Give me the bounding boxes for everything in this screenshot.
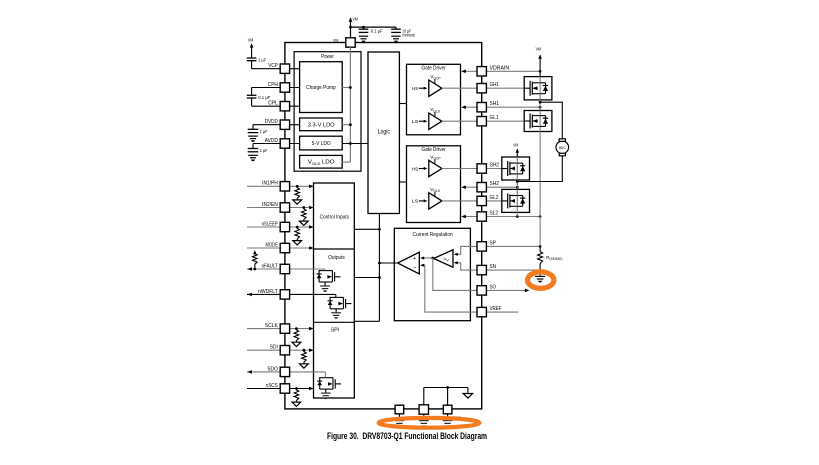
svg-text:HS: HS — [412, 86, 419, 92]
open-drain FET (nWDFLT) — [328, 297, 352, 318]
VM supply arrow (half-bridge 1) — [538, 54, 542, 76]
svg-text:GH2: GH2 — [490, 163, 500, 169]
pull-down resistor on nSLEEP — [293, 226, 302, 245]
svg-text:LS: LS — [412, 199, 419, 205]
node VM/cap junction — [349, 26, 352, 29]
wire SDI — [247, 349, 312, 351]
wire SN to sense resistor — [486, 269, 540, 271]
wire SDO to FET drain — [324, 372, 326, 378]
3.3-V LDO block — [300, 118, 343, 131]
GND pin 3 — [443, 405, 452, 414]
highlight ring (sense ground) — [528, 272, 554, 288]
wire IN2/EN — [247, 207, 312, 209]
pull-down resistor on IN2/EN — [299, 206, 308, 225]
divider outputs / SPI — [314, 321, 355, 323]
wire logic to gate driver 1 — [399, 103, 406, 105]
svg-text:DVDD: DVDD — [265, 119, 278, 125]
svg-text:1 µF: 1 µF — [260, 129, 268, 134]
svg-text:BDC: BDC — [559, 146, 566, 150]
wire GH1 — [442, 87, 524, 89]
wire control inputs to logic — [354, 228, 379, 230]
wire GND riser (pin 3) — [447, 388, 449, 406]
svg-text:3.3-V LDO: 3.3-V LDO — [308, 122, 335, 128]
svg-text:SH2: SH2 — [490, 181, 500, 187]
pin MODE — [266, 242, 290, 252]
pull-up resistor on nFAULT — [253, 250, 258, 270]
svg-text:nSCS: nSCS — [266, 383, 279, 389]
wire outputs to logic — [354, 277, 379, 279]
pull-down resistor on SDI — [300, 349, 309, 368]
pin SCLK — [265, 323, 290, 333]
wire DVDD — [253, 124, 300, 126]
wire GH2 — [442, 168, 502, 170]
svg-text:IN2/EN: IN2/EN — [262, 202, 278, 208]
VM supply arrow (VCP cap) — [250, 43, 254, 58]
wire FET1 source to SP node — [539, 132, 541, 247]
svg-text:Logic: Logic — [378, 129, 390, 135]
wire logic to gate driver 2 — [399, 181, 406, 183]
node SH1 motor tap — [539, 101, 542, 104]
pin VCP — [268, 63, 289, 73]
pin VDRAIN — [477, 65, 509, 76]
op-amp comparator (current regulation) — [398, 252, 420, 274]
wire SO output — [486, 289, 528, 291]
svg-text:Power: Power — [321, 54, 334, 60]
pin GH1 — [477, 82, 499, 93]
wire VM arrow to VM pin — [350, 27, 352, 38]
open-drain FET (SDO) — [317, 378, 341, 399]
svg-text:VM: VM — [248, 38, 253, 44]
pin nFAULT — [262, 263, 290, 273]
svg-text:+: + — [413, 256, 416, 262]
pin CPL — [268, 101, 289, 111]
charge pump block — [300, 62, 343, 113]
svg-text:Current Regulation: Current Regulation — [413, 232, 453, 238]
svg-text:VGLS LDO: VGLS LDO — [308, 160, 335, 166]
wire motor lead A — [540, 102, 562, 139]
GND pin 2 — [419, 405, 428, 414]
wire GL1 — [442, 120, 524, 122]
capacitor C_FLY 0.1 uF (CPH-CPL) — [247, 88, 257, 107]
wire nFAULT to FET drain — [324, 269, 326, 271]
svg-text:VDRAIN: VDRAIN — [490, 65, 510, 71]
pin SL2 — [477, 211, 498, 222]
wire 5-V LDO to logic — [342, 143, 368, 145]
transistor low-side FET 2 — [502, 189, 530, 212]
GND pin 1 — [395, 405, 404, 414]
wire SCLK — [247, 328, 312, 330]
divider control inputs / outputs — [314, 248, 355, 250]
VM supply arrow (top) — [349, 17, 353, 27]
pull-down resistor on SCLK — [292, 327, 301, 346]
pin DVDD — [265, 119, 290, 129]
5-V LDO block — [300, 136, 343, 150]
svg-text:SP: SP — [490, 240, 497, 246]
svg-text:SN: SN — [490, 264, 497, 270]
svg-text:IN1/PH: IN1/PH — [262, 181, 278, 187]
wire FET2 source to SL2 — [516, 212, 518, 216]
svg-text:VM: VM — [536, 47, 541, 53]
svg-text:CPH: CPH — [268, 82, 278, 88]
device outline box — [285, 43, 482, 409]
wire source link HB2 — [516, 180, 518, 189]
wire nWDFLT to FET drain — [335, 294, 337, 297]
Power section box — [294, 52, 361, 172]
VM pin — [346, 38, 355, 47]
pin SDI — [270, 345, 290, 355]
svg-text:nSLEEP: nSLEEP — [262, 221, 279, 227]
transistor high-side FET 2 — [502, 157, 530, 180]
capacitor 10 uF (minimum) (VM bulk) — [391, 27, 401, 42]
svg-text:nWDFLT: nWDFLT — [258, 289, 278, 295]
wire SP to sense resistor — [486, 245, 540, 247]
svg-text:VREF: VREF — [490, 306, 502, 312]
ground (sense resistor) — [535, 275, 545, 277]
pin nWDFLT — [258, 289, 290, 299]
op-amp AV sense amplifier — [434, 250, 454, 267]
highlight ring (GND pins) — [379, 418, 480, 428]
wire logic riser — [378, 214, 380, 322]
svg-text:SDO: SDO — [267, 366, 278, 372]
wire comparator output to logic riser — [379, 262, 397, 264]
svg-text:SPI: SPI — [331, 327, 339, 333]
svg-text:0.1 µF: 0.1 µF — [371, 28, 383, 33]
ground pin 2 — [419, 420, 429, 422]
wire SN to AV- — [455, 263, 477, 270]
pull-down resistor on IN1/PH — [293, 185, 302, 204]
Logic block — [368, 52, 399, 214]
wire VM top rail — [351, 26, 397, 28]
current regulation box — [394, 228, 470, 320]
svg-text:Figure 30. DRV8703-Q1 Functio: Figure 30. DRV8703-Q1 Functional Block D… — [327, 431, 487, 441]
resistor R_SENSE — [538, 246, 543, 276]
svg-text:VM: VM — [353, 16, 358, 22]
pin GL1 — [477, 115, 499, 126]
svg-text:SCLK: SCLK — [265, 323, 279, 329]
ground pin 3 — [443, 420, 453, 422]
wire IN1/PH — [247, 185, 312, 187]
pin SP — [477, 240, 497, 251]
wire GND riser (pin 2) — [423, 388, 425, 406]
capacitor C_AVDD 1 uF — [248, 144, 259, 162]
wire VCP — [252, 68, 300, 70]
svg-text:nFAULT: nFAULT — [262, 263, 279, 269]
pin GL2 — [477, 195, 499, 206]
control inputs / outputs / SPI column box — [314, 183, 355, 398]
pin nSCS — [266, 383, 290, 393]
transistor high-side FET 1 — [524, 77, 552, 100]
capacitor 0.1 uF (VM bypass) — [359, 27, 369, 42]
pin nSLEEP — [262, 221, 290, 231]
pin GH2 — [477, 163, 499, 174]
svg-text:AVDD: AVDD — [265, 138, 278, 144]
pin IN1/PH — [262, 181, 290, 191]
svg-text:Gate Driver: Gate Driver — [421, 147, 446, 153]
VM supply arrow (half-bridge 2) — [516, 148, 520, 157]
wire SP to AV+ — [455, 246, 477, 254]
pin CPH — [268, 82, 290, 92]
svg-text:SO: SO — [490, 284, 497, 290]
svg-text:1 µF: 1 µF — [258, 58, 266, 63]
transistor low-side FET 1 — [524, 111, 552, 132]
svg-text:Outputs: Outputs — [328, 255, 345, 261]
wire source link HB1 — [539, 100, 541, 111]
wire nWDFLT — [247, 293, 336, 295]
wire AV output to SO — [433, 258, 477, 290]
wire 3.3-V LDO to VM — [342, 124, 350, 126]
svg-text:CPL: CPL — [268, 101, 278, 107]
svg-text:GL2: GL2 — [490, 195, 499, 201]
pin SDO — [267, 366, 289, 376]
svg-text:Gate Driver: Gate Driver — [421, 65, 446, 71]
wire AVDD — [253, 143, 300, 145]
svg-text:VM: VM — [333, 38, 338, 44]
ground pin 1 — [395, 420, 405, 422]
wire CPL — [252, 105, 300, 107]
svg-text:GL1: GL1 — [490, 115, 499, 121]
op-amp HS gate driver 1 — [412, 74, 442, 96]
op-amp LS gate driver 2 — [412, 187, 442, 209]
pin SH1 — [477, 101, 499, 112]
wire nSCS — [247, 388, 312, 390]
pin SN — [477, 264, 496, 275]
wire GL2 — [442, 200, 502, 202]
wire SPI to logic — [354, 320, 379, 322]
svg-text:SH1: SH1 — [490, 101, 500, 107]
pin AVDD — [265, 138, 290, 148]
wire charge pump to VM — [342, 87, 350, 89]
pin VREF — [477, 306, 502, 317]
svg-text:VCP: VCP — [268, 63, 278, 69]
open-drain FET (nFAULT) — [317, 271, 341, 292]
wire VGLS LDO to VM — [342, 161, 350, 163]
wire SH2 — [463, 186, 518, 188]
wire VREF external — [486, 311, 518, 313]
pin IN2/EN — [262, 202, 290, 212]
wire VM power rail (internal) — [349, 47, 351, 162]
wire VREF to comparator - — [421, 265, 477, 312]
svg-text:SDI: SDI — [270, 345, 278, 351]
svg-text:SL2: SL2 — [490, 211, 499, 217]
gate driver 1 box — [407, 64, 461, 135]
wire VDRAIN — [463, 70, 541, 72]
ground (device internal) — [463, 388, 472, 399]
wire SH1 — [463, 106, 541, 108]
svg-text:MODE: MODE — [266, 242, 279, 248]
gate driver 2 box — [407, 146, 461, 223]
svg-text:GH1: GH1 — [490, 82, 500, 88]
wire SL2 — [463, 216, 541, 218]
svg-text:(minimum): (minimum) — [402, 33, 415, 38]
svg-text:VM: VM — [513, 142, 518, 148]
pull-down resistor on nSCS — [292, 387, 301, 406]
svg-text:LS: LS — [412, 119, 419, 125]
op-amp LS gate driver 1 — [412, 107, 442, 129]
wire nFAULT — [247, 268, 325, 270]
wire nSLEEP — [247, 226, 312, 228]
svg-text:1 µF: 1 µF — [260, 148, 268, 153]
wire GND rail internal — [424, 387, 468, 389]
wire CPH — [252, 87, 300, 89]
pin SO — [477, 284, 496, 295]
capacitor C_DVDD 1 uF — [248, 125, 259, 142]
VGLS LDO block — [300, 155, 343, 168]
wire MODE — [247, 247, 312, 249]
svg-text:−: − — [413, 265, 416, 271]
wire SDO — [247, 371, 325, 373]
op-amp HS gate driver 2 — [412, 154, 442, 176]
wire AV output to comparator + — [421, 257, 434, 259]
pin SH2 — [477, 181, 499, 192]
motor BDC — [556, 139, 569, 156]
svg-text:Control Inputs: Control Inputs — [320, 215, 350, 221]
wire motor lead B — [517, 156, 562, 182]
node SH2 motor tap — [516, 180, 519, 183]
svg-text:Charge Pump: Charge Pump — [306, 85, 336, 91]
svg-text:0.1 µF: 0.1 µF — [258, 95, 270, 100]
capacitor C_VCP 1 uF — [247, 58, 257, 69]
svg-text:HS: HS — [412, 166, 419, 172]
svg-text:5-V LDO: 5-V LDO — [312, 141, 331, 147]
